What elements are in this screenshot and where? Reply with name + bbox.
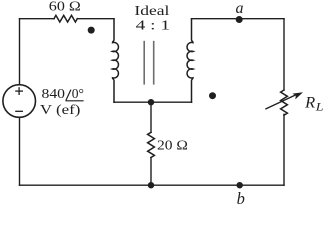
svg-text:60 Ω: 60 Ω <box>49 0 81 15</box>
node b dot <box>237 182 243 188</box>
wire bottom horizontal <box>20 184 285 186</box>
svg-text:b: b <box>237 189 245 207</box>
svg-text:R: R <box>304 95 315 112</box>
wire top-right horizontal (secondary to node a) <box>192 18 285 20</box>
wire right vertical lower <box>283 114 285 185</box>
resistor 20 ohm <box>148 132 155 157</box>
junction dot transformer bottom <box>148 99 154 105</box>
inductor primary winding L1 <box>113 19 119 103</box>
svg-text:V (ef): V (ef) <box>40 102 81 117</box>
svg-text:L: L <box>315 100 324 114</box>
transformer core lines <box>144 41 154 85</box>
resistor RL zigzag <box>281 90 288 115</box>
polarity dot primary <box>88 27 95 34</box>
svg-text:840: 840 <box>42 86 66 101</box>
angle slash <box>66 90 71 101</box>
svg-text:a: a <box>236 0 244 17</box>
plus sign <box>15 87 23 111</box>
wire top-left horizontal (source to R 60) <box>20 18 55 20</box>
svg-text:Ideal: Ideal <box>134 3 169 18</box>
wire right vertical upper <box>283 19 285 90</box>
minus sign <box>15 110 23 112</box>
angle underline <box>66 100 84 102</box>
svg-text:4 : 1: 4 : 1 <box>136 19 171 34</box>
svg-text:20 Ω: 20 Ω <box>157 137 188 152</box>
junction dot bottom wire <box>148 182 154 188</box>
wire middle vertical lower <box>150 158 152 186</box>
wire left vertical upper <box>19 19 21 85</box>
resistor 60 ohm <box>54 15 77 22</box>
wire top-left to transformer primary <box>77 18 114 20</box>
polarity dot secondary <box>209 92 216 99</box>
wire transformer bottom horizontal <box>114 101 192 103</box>
voltage source circle <box>3 85 36 118</box>
svg-text:0°: 0° <box>72 86 84 101</box>
node a dot <box>236 16 243 23</box>
inductor secondary winding L2 <box>187 19 193 103</box>
arrow through RL <box>265 92 303 109</box>
wire left vertical lower <box>19 117 21 185</box>
wire middle vertical upper <box>150 102 152 132</box>
